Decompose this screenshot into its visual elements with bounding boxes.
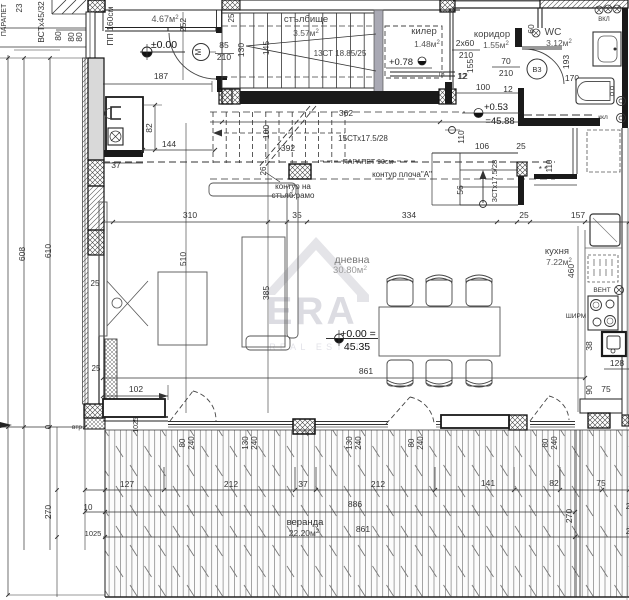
svg-text:240: 240 [187,436,196,450]
svg-text:25: 25 [516,141,526,151]
svg-text:82: 82 [549,478,559,488]
svg-text:141: 141 [481,478,495,488]
svg-text:12: 12 [503,84,513,94]
svg-text:М: М [194,48,203,55]
svg-text:±0.00: ±0.00 [151,39,177,51]
svg-text:ШИРМ: ШИРМ [566,313,586,320]
svg-text:334: 334 [402,210,416,220]
svg-text:30.80м2: 30.80м2 [333,265,367,276]
svg-text:ВКЛ: ВКЛ [598,17,609,23]
svg-text:3СТх17.5/28: 3СТх17.5/28 [490,160,499,202]
svg-text:35: 35 [292,210,302,220]
svg-text:веранда: веранда [287,517,325,528]
svg-text:В3: В3 [532,65,541,74]
svg-text:12: 12 [457,71,467,81]
svg-text:25: 25 [227,13,236,22]
svg-text:ПП 160см: ПП 160см [105,6,115,45]
svg-text:80: 80 [541,438,550,447]
svg-text:106: 106 [475,141,489,151]
svg-text:1025: 1025 [85,529,102,538]
svg-text:212: 212 [371,479,385,489]
svg-text:270: 270 [43,505,53,519]
svg-text:23: 23 [15,3,24,12]
svg-text:80: 80 [53,31,63,41]
svg-text:610: 610 [43,244,53,258]
svg-text:130: 130 [241,436,250,450]
svg-text:392: 392 [281,143,295,153]
svg-text:145: 145 [261,41,271,55]
svg-text:4.67м2: 4.67м2 [151,14,179,24]
svg-text:75: 75 [596,478,606,488]
svg-text:90: 90 [584,385,594,395]
svg-text:310: 310 [183,210,197,220]
svg-text:102: 102 [129,384,143,394]
svg-text:210: 210 [499,68,513,78]
svg-text:37: 37 [111,160,121,170]
svg-text:100: 100 [261,125,271,139]
svg-text:385: 385 [261,286,271,300]
svg-text:193: 193 [561,55,571,69]
svg-text:212: 212 [224,479,238,489]
svg-text:240: 240 [550,436,559,450]
svg-text:210: 210 [459,50,473,60]
svg-text:коридор: коридор [474,29,510,40]
svg-text:ERA: ERA [266,290,357,333]
svg-text:13СТ 18.85/25: 13СТ 18.85/25 [314,49,367,58]
svg-text:WC: WC [545,27,562,38]
svg-text:240: 240 [416,436,425,450]
svg-text:25: 25 [519,210,529,220]
svg-text:25: 25 [92,364,101,373]
svg-text:45.35: 45.35 [344,341,370,353]
svg-text:+0.53: +0.53 [484,102,508,113]
svg-text:75: 75 [601,384,611,394]
svg-text:110: 110 [545,159,554,172]
svg-text:460: 460 [566,264,576,278]
svg-text:127: 127 [120,479,134,489]
svg-text:128: 128 [610,358,624,368]
svg-text:13: 13 [437,71,445,78]
svg-text:100: 100 [476,82,490,92]
svg-text:886: 886 [348,499,362,509]
svg-text:стълбище: стълбище [284,14,328,25]
svg-text:=45.88: =45.88 [485,116,514,127]
svg-text:ВСТх45/32: ВСТх45/32 [36,1,46,43]
svg-text:861: 861 [356,524,370,534]
svg-text:270: 270 [564,509,574,523]
svg-text:ПАРАПЕТ: ПАРАПЕТ [1,3,8,36]
svg-text:130: 130 [345,436,354,450]
svg-text:861: 861 [359,366,373,376]
svg-text:2х60: 2х60 [456,38,475,48]
svg-text:130: 130 [236,43,246,57]
svg-text:70: 70 [501,56,511,66]
svg-text:157: 157 [571,210,585,220]
svg-text:25: 25 [91,279,100,288]
svg-text:82: 82 [144,123,154,133]
svg-text:80: 80 [74,32,84,42]
svg-text:15СТх17.5/28: 15СТх17.5/28 [338,134,388,143]
svg-text:килер: килер [411,26,437,37]
svg-text:240: 240 [354,436,363,450]
svg-text:26: 26 [259,166,268,175]
svg-text:1025: 1025 [133,417,140,433]
svg-text:60: 60 [526,24,536,34]
svg-text:+0.78: +0.78 [389,57,413,68]
svg-text:187: 187 [154,71,168,81]
svg-text:608: 608 [17,247,27,261]
svg-text:144: 144 [162,139,176,149]
svg-text:кухня: кухня [545,246,569,257]
svg-text:втр: втр [72,424,82,431]
svg-text:22.20м2: 22.20м2 [289,528,320,538]
svg-text:37: 37 [298,479,308,489]
svg-text:80: 80 [407,438,416,447]
svg-text:85: 85 [219,40,229,50]
svg-text:80: 80 [178,438,187,447]
svg-text:контур плоча"А": контур плоча"А" [372,170,432,179]
svg-text:38: 38 [584,341,594,351]
svg-text:240: 240 [250,436,259,450]
svg-text:362: 362 [339,108,353,118]
svg-text:110: 110 [456,130,466,144]
svg-text:ПАРАПЕТ 90см: ПАРАПЕТ 90см [343,159,394,166]
svg-text:ВЕНТ: ВЕНТ [593,287,610,294]
svg-text:510: 510 [178,252,188,266]
svg-text:56: 56 [455,185,465,195]
